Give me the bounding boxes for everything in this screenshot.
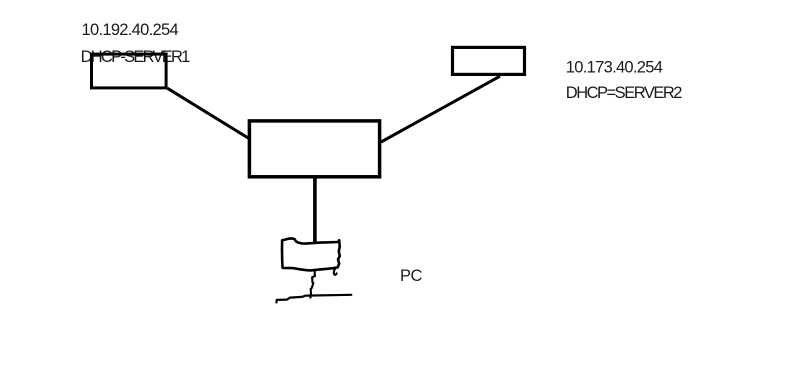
PC monitor (hand-drawn box) <box>282 238 340 270</box>
svg-text:DHCP=SERVER2: DHCP=SERVER2 <box>566 84 682 102</box>
PC monitor corner hook <box>334 269 337 275</box>
DHCP server 1 box <box>92 54 167 88</box>
svg-text:PC: PC <box>400 267 423 285</box>
switch box <box>249 121 379 177</box>
PC stand squiggle <box>310 270 315 297</box>
wire server2 to switch <box>381 76 500 142</box>
wire switch to PC <box>313 177 317 243</box>
PC base line <box>276 295 351 303</box>
svg-text:10.173.40.254: 10.173.40.254 <box>566 59 663 77</box>
svg-text:DHCP-SERVER1: DHCP-SERVER1 <box>81 48 191 66</box>
svg-text:10.192.40.254: 10.192.40.254 <box>82 21 179 39</box>
DHCP server 2 box <box>453 47 525 74</box>
wire server1 to switch <box>167 88 248 138</box>
